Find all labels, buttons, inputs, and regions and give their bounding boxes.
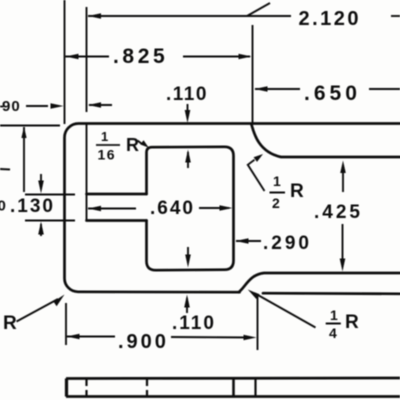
dim .825: [66, 56, 251, 58]
far-left dim up arrow: [21, 127, 26, 139]
svg-text:.290: .290: [263, 233, 312, 254]
side view strip: [66, 378, 400, 397]
svg-text:.425: .425: [314, 202, 363, 223]
slot lines: [87, 193, 147, 196]
leader R bottom left: [17, 299, 59, 322]
svg-text:2.120: 2.120: [299, 8, 362, 30]
top edge extension to left: [0, 125, 60, 127]
svg-text:R: R: [126, 135, 139, 155]
dim .290 arrow: [236, 240, 261, 242]
leader 1/4 R: [257, 295, 316, 328]
svg-text:.650: .650: [304, 82, 361, 105]
dim .110 bottom arrows: [187, 247, 189, 262]
svg-text:16: 16: [98, 147, 117, 163]
step bottom fillet 1/4R: [239, 273, 400, 292]
stub at far left: [0, 168, 10, 171]
leader 1/16 R: [138, 141, 143, 145]
svg-text:0: 0: [0, 198, 6, 215]
svg-text:.110: .110: [166, 84, 208, 105]
svg-text:.110: .110: [172, 313, 216, 334]
dim .650: [255, 88, 400, 90]
svg-text:4: 4: [329, 325, 337, 341]
dimension texts: [0, 8, 363, 353]
svg-text:.825: .825: [113, 45, 168, 68]
svg-text:1: 1: [330, 307, 338, 323]
svg-text:1: 1: [101, 129, 108, 144]
svg-text:.130: .130: [10, 196, 55, 217]
.130 extension lines: [25, 194, 75, 196]
svg-text:R: R: [290, 181, 304, 202]
svg-text:2: 2: [272, 195, 280, 211]
extension line left edge above part: [64, 0, 66, 124]
0.900 extension lines: [65, 303, 67, 345]
svg-text:R: R: [3, 313, 17, 334]
svg-text:.900: .900: [118, 331, 169, 353]
leader 1/2 R: [248, 160, 265, 191]
part outline plan view: [64, 124, 400, 293]
extension line fillet start: [252, 25, 254, 124]
cutout rounded rect with slot gap: [147, 147, 234, 270]
extension line x=86.5: [86, 7, 88, 221]
svg-text:1: 1: [273, 173, 281, 189]
step top fillet 1/2R: [252, 125, 400, 158]
dim .900: [67, 337, 252, 338]
bottom edge continuation: [263, 292, 400, 295]
dim .110 top arrows: [187, 104, 189, 118]
dim .130 arrows: [40, 174, 42, 189]
svg-text:R: R: [345, 312, 359, 333]
dim .425 arrows: [342, 168, 344, 192]
dim .640: [88, 207, 229, 210]
dim .090: [26, 105, 48, 107]
svg-text:90: 90: [2, 98, 21, 115]
svg-text:.640: .640: [150, 198, 195, 219]
dim 2.120: [88, 15, 291, 17]
far-left vertical dimension line: [23, 127, 25, 192]
